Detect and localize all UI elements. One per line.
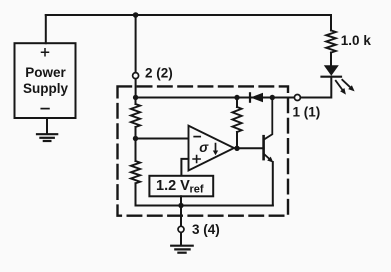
svg-text:3 (4): 3 (4): [192, 222, 220, 237]
svg-text:Supply: Supply: [23, 81, 68, 96]
wire bottom rail to pin 3: [180, 206, 182, 226]
resistor 1.0 k: [326, 30, 336, 52]
power supply box: [15, 43, 76, 118]
wire emitter to bottom rail: [272, 162, 274, 206]
label Power Supply: [23, 65, 68, 96]
wire pin 1 to LED branch: [301, 97, 331, 99]
terminal pin 2: [133, 73, 139, 79]
node pull-up resistor top: [234, 95, 239, 100]
wire top internal rail: [136, 97, 294, 99]
diode D1: [250, 93, 263, 103]
op-amp U1 comparator: [189, 126, 235, 171]
node collector junction: [270, 95, 275, 100]
node divider top: [133, 95, 138, 100]
wire pin 3 to ground: [180, 233, 182, 245]
node comparator output: [234, 146, 239, 151]
wire resistor to LED: [330, 53, 332, 66]
svg-text:2 (2): 2 (2): [145, 65, 173, 80]
wire pin 2 into IC: [135, 79, 137, 98]
resistor R3 pull-up: [232, 98, 241, 149]
Vref box: [149, 176, 213, 197]
svg-text:ref: ref: [190, 184, 204, 196]
wire tap to inverting input: [136, 138, 189, 140]
wire rail down to resistor 1.0k: [330, 15, 332, 30]
wire bottom internal rail: [136, 205, 273, 207]
op-amp down arrow: [213, 144, 218, 156]
terminal pin 3: [178, 226, 184, 232]
wire noninverting input to Vref: [181, 159, 188, 176]
wire comparator output to base: [237, 147, 264, 149]
svg-text:σ: σ: [199, 140, 209, 155]
svg-text:1.0 k: 1.0 k: [341, 33, 372, 48]
wire top rail: [46, 14, 331, 16]
wire rail down to pin 2: [135, 15, 137, 72]
terminal pin 1: [294, 95, 300, 101]
LED D2: [322, 65, 355, 94]
node bottom rail: [178, 203, 183, 208]
transistor Q1: [264, 98, 274, 163]
svg-text:Power: Power: [25, 65, 66, 80]
wire Vref to bottom rail: [180, 196, 182, 205]
svg-text:1.2 V: 1.2 V: [156, 178, 190, 194]
label 1.2 Vref: [156, 178, 204, 196]
wire power supply top to rail: [45, 15, 47, 43]
wire LED to pin 1: [301, 77, 331, 98]
resistor R1 upper divider: [131, 98, 140, 128]
resistor R2 lower divider: [131, 139, 140, 184]
node divider tap: [133, 136, 138, 141]
dashed IC boundary box: [118, 86, 289, 215]
wire R2 to bottom rail: [135, 183, 137, 205]
ground power supply: [37, 134, 57, 141]
svg-text:1 (1): 1 (1): [293, 104, 321, 119]
wire power supply bottom: [46, 118, 48, 133]
node junction top rail: [133, 12, 139, 18]
ground pin 3: [171, 246, 193, 253]
wire R1 to tap: [135, 127, 137, 139]
